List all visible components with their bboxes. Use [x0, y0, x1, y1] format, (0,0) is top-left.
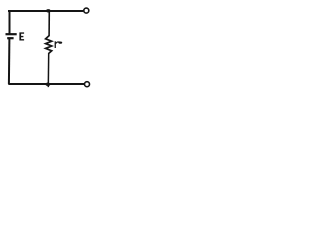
wire top horizontal: [8, 10, 83, 12]
wire bottom horizontal: [8, 83, 84, 85]
terminal bottom right: [85, 82, 90, 87]
battery E top plate: [6, 33, 17, 35]
battery E bottom plate: [7, 37, 13, 39]
node junction bottom: [45, 83, 50, 87]
label r: [55, 41, 56, 48]
wire resistor branch upper: [48, 10, 50, 36]
terminal top right: [84, 8, 89, 13]
wire left vertical upper: [9, 10, 11, 34]
wire left vertical lower: [8, 38, 11, 84]
node junction top: [46, 9, 51, 12]
label E: [19, 32, 24, 40]
wire resistor branch lower: [47, 53, 49, 87]
resistor r zigzag: [46, 36, 52, 53]
